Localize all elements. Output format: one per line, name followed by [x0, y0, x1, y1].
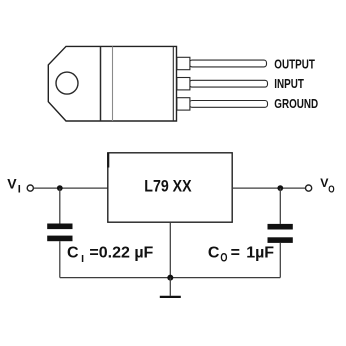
input terminal: [27, 185, 33, 191]
capacitor C2 bottom plate: [268, 237, 293, 243]
pin 3 lead (GROUND): [190, 101, 268, 108]
pin 1 lead (OUTPUT): [190, 60, 267, 67]
svg-text:O: O: [328, 184, 334, 195]
package U1 TO-220 outline: [48, 46, 176, 121]
package tab separator line (dark): [100, 46, 102, 121]
ground stem: [169, 278, 171, 296]
ground bar: [160, 296, 181, 298]
output terminal: [306, 185, 312, 191]
wire regulator ground pin: [169, 222, 171, 277]
box edge artifact tick: [107, 153, 109, 168]
package inner right edge line: [172, 46, 174, 121]
svg-text:INPUT: INPUT: [274, 78, 304, 91]
capacitor C1 bottom plate: [47, 236, 72, 242]
node B junction dot: [277, 185, 283, 191]
wire regulator to output: [232, 187, 305, 189]
wire capacitor CI to ground rail: [59, 241, 61, 277]
ground node junction dot: [167, 275, 173, 281]
svg-text:GROUND: GROUND: [274, 98, 318, 111]
wire node A to capacitor CI: [59, 188, 61, 223]
mounting hole: [56, 72, 78, 94]
wire capacitor CO to ground rail: [279, 243, 281, 278]
svg-text:L79 XX: L79 XX: [144, 178, 192, 196]
capacitor C2 top plate: [268, 224, 293, 230]
svg-text:OUTPUT: OUTPUT: [274, 59, 315, 72]
package tab separator line (light): [112, 46, 114, 121]
capacitor C1 top plate: [47, 224, 72, 230]
wire input to regulator: [34, 187, 108, 189]
pin 2 lead (INPUT): [190, 80, 268, 87]
regulator U2 box: [108, 153, 232, 222]
pin 2 shoulder: [177, 78, 190, 90]
ground rail wire: [60, 277, 280, 279]
svg-text:O: O: [220, 251, 227, 265]
node A junction dot: [57, 185, 63, 191]
wire node B to capacitor CO: [279, 188, 281, 224]
pin 3 shoulder: [177, 98, 190, 110]
pin 1 shoulder: [177, 57, 190, 69]
